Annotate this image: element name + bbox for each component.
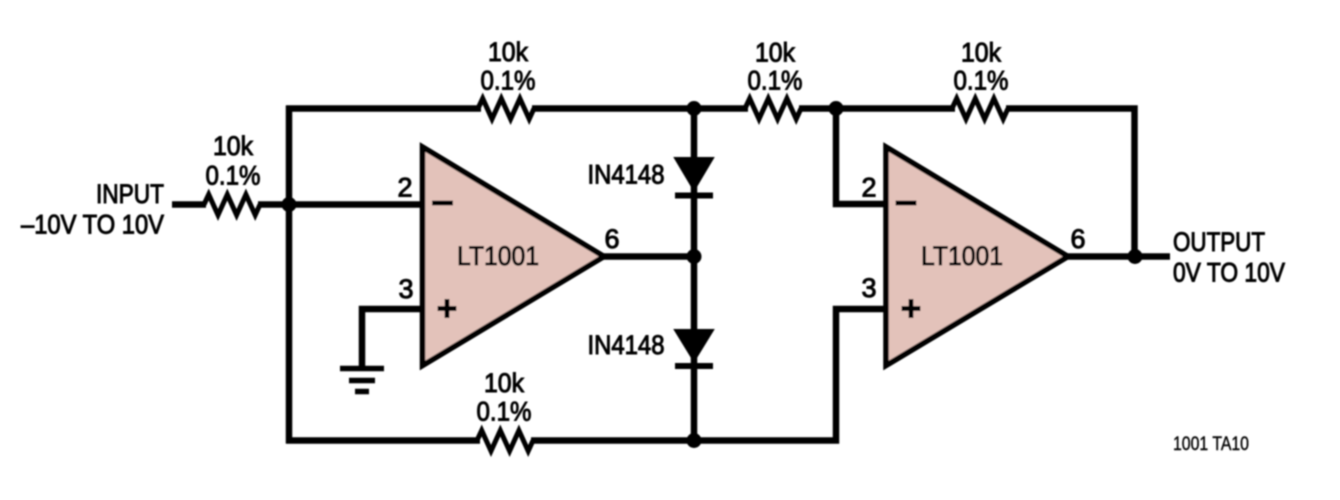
svg-text:INPUT: INPUT xyxy=(96,179,164,209)
svg-text:0V TO 10V: 0V TO 10V xyxy=(1173,258,1285,288)
svg-text:6: 6 xyxy=(1070,224,1085,254)
resistor R2 10k 0.1% top left xyxy=(478,99,534,120)
svg-text:6: 6 xyxy=(604,224,619,254)
ground symbol xyxy=(340,369,384,392)
wire top from R3 to node B xyxy=(799,105,955,112)
svg-text:0.1%: 0.1% xyxy=(206,161,261,191)
wire node B down to op-amp U2 pin 2 xyxy=(836,106,886,205)
svg-text:10k: 10k xyxy=(484,368,524,398)
svg-text:3: 3 xyxy=(861,273,876,303)
resistor R1 10k 0.1% input xyxy=(204,195,260,216)
svg-text:2: 2 xyxy=(397,173,412,203)
svg-text:0.1%: 0.1% xyxy=(481,66,536,96)
node diode middle junction dot xyxy=(687,249,702,264)
wire op-amp U1 pin 3 to ground xyxy=(362,309,423,368)
svg-text:10k: 10k xyxy=(213,131,253,161)
node bottom diode junction dot xyxy=(687,433,702,448)
svg-text:3: 3 xyxy=(398,274,413,304)
node top diode junction dot xyxy=(687,101,702,116)
resistor R3 10k 0.1% top middle xyxy=(745,99,801,120)
svg-text:10k: 10k xyxy=(755,38,795,68)
op-amp U2 triangle xyxy=(886,147,1068,366)
wire diode chain vertical xyxy=(691,109,698,441)
op-amp U1 minus sign xyxy=(432,201,453,206)
diode D1 IN4148 top xyxy=(675,158,713,196)
node output junction dot xyxy=(1128,249,1143,264)
op-amp U2 minus sign xyxy=(896,201,917,206)
node B junction dot xyxy=(829,101,844,116)
resistor R4 10k 0.1% top right xyxy=(952,99,1008,120)
op-amp U1 triangle xyxy=(423,147,605,366)
svg-text:0.1%: 0.1% xyxy=(954,66,1009,96)
svg-text:OUTPUT: OUTPUT xyxy=(1173,227,1265,257)
svg-text:LT1001: LT1001 xyxy=(921,241,1003,271)
svg-text:–10V TO 10V: –10V TO 10V xyxy=(21,210,164,240)
svg-text:LT1001: LT1001 xyxy=(457,241,539,271)
svg-text:IN4148: IN4148 xyxy=(588,330,665,360)
wire top from R2 to diode node xyxy=(532,105,748,112)
svg-text:10k: 10k xyxy=(488,37,528,67)
diode D2 IN4148 bottom xyxy=(675,330,713,366)
svg-text:1001 TA10: 1001 TA10 xyxy=(1173,434,1249,455)
wire op-amp U1 output to diode node xyxy=(601,253,694,260)
resistor R5 10k 0.1% bottom xyxy=(477,431,533,452)
svg-text:0.1%: 0.1% xyxy=(748,66,803,96)
op-amp U1 plus sign xyxy=(438,299,457,318)
svg-text:0.1%: 0.1% xyxy=(477,397,532,427)
svg-text:10k: 10k xyxy=(961,38,1001,68)
wire left vertical feedback xyxy=(286,106,293,444)
wire bottom from R5 to op-amp U2 pin 3 xyxy=(531,309,886,441)
wire top right corner down to output node xyxy=(1006,109,1135,257)
svg-text:2: 2 xyxy=(861,173,876,203)
op-amp U2 plus sign xyxy=(902,299,921,318)
wire top from left vertical to R2 xyxy=(286,105,481,112)
node input junction dot xyxy=(282,197,297,212)
wire bottom from left vertical to R5 xyxy=(286,437,480,444)
wire input node to op-amp U1 pin 2 xyxy=(258,201,423,208)
wire input horizontal xyxy=(172,201,206,208)
svg-text:IN4148: IN4148 xyxy=(588,160,665,190)
wire op-amp U2 output xyxy=(1065,253,1170,260)
